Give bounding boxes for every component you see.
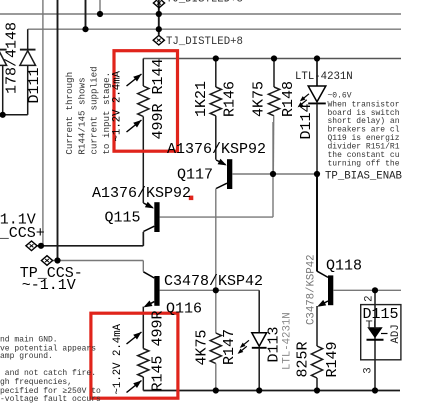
svg-text:and not catch fire.: and not catch fire.	[0, 369, 96, 378]
svg-text:gh frequencies,: gh frequencies,	[0, 378, 72, 387]
svg-text:amp ground.: amp ground.	[0, 352, 53, 361]
svg-text:Q118: Q118	[326, 258, 362, 275]
svg-text:to input stage.: to input stage.	[101, 72, 112, 155]
svg-text:R144/145 shows: R144/145 shows	[76, 77, 87, 154]
svg-text:ADJ: ADJ	[390, 324, 402, 343]
svg-text:~0.6V: ~0.6V	[328, 92, 352, 101]
svg-text:LTL-4231N: LTL-4231N	[281, 312, 293, 370]
svg-text:TP_BIAS_ENAB: TP_BIAS_ENAB	[325, 170, 403, 182]
svg-text:R147: R147	[221, 329, 238, 365]
svg-text:nd main GND.: nd main GND.	[0, 336, 58, 345]
svg-text:825R: 825R	[294, 341, 311, 377]
svg-text:R149: R149	[324, 341, 341, 377]
svg-text:Q117: Q117	[177, 167, 213, 184]
svg-text:current supplied: current supplied	[89, 66, 100, 154]
svg-text:4K75: 4K75	[194, 329, 211, 365]
svg-text:TJ_DISTLED+8: TJ_DISTLED+8	[166, 36, 243, 48]
svg-text:Current through: Current through	[64, 72, 75, 155]
svg-text:3: 3	[362, 367, 374, 373]
svg-text:Q116: Q116	[166, 301, 202, 318]
svg-text:D113: D113	[265, 326, 282, 362]
svg-text:A1376/KSP92: A1376/KSP92	[92, 185, 191, 202]
svg-text:C3478/KSP42: C3478/KSP42	[305, 254, 317, 325]
svg-text:LTL-4231N: LTL-4231N	[295, 71, 353, 83]
svg-text:-voltage fault occurs: -voltage fault occurs	[0, 395, 101, 404]
svg-text:178/4148: 178/4148	[4, 22, 21, 94]
svg-text:~1.2V 2.4mA: ~1.2V 2.4mA	[112, 70, 124, 141]
svg-text:499R R144: 499R R144	[150, 58, 167, 139]
svg-text:A1376/KSP92: A1376/KSP92	[167, 141, 266, 158]
svg-text:R146: R146	[222, 81, 239, 117]
svg-text:C3478/KSP42: C3478/KSP42	[164, 273, 263, 290]
svg-text:1K21: 1K21	[193, 81, 210, 117]
svg-text:~-1.1V: ~-1.1V	[22, 277, 76, 294]
svg-text:4K75: 4K75	[250, 81, 267, 117]
svg-text:TJ_DISTLED+8: TJ_DISTLED+8	[166, 0, 243, 6]
svg-text:Q115: Q115	[105, 209, 141, 226]
svg-text:turning off the: turning off the	[328, 159, 400, 168]
svg-text:TL: TL	[366, 319, 380, 333]
svg-text:R145 499R: R145 499R	[149, 310, 166, 391]
svg-text:R148: R148	[280, 81, 297, 117]
svg-text:D111: D111	[26, 67, 43, 103]
svg-text:2: 2	[363, 295, 375, 301]
svg-text:TP_CCS+: TP_CCS+	[0, 225, 45, 242]
svg-text:~1.2V 2.4mA: ~1.2V 2.4mA	[112, 323, 124, 394]
svg-text:D114: D114	[298, 103, 315, 139]
